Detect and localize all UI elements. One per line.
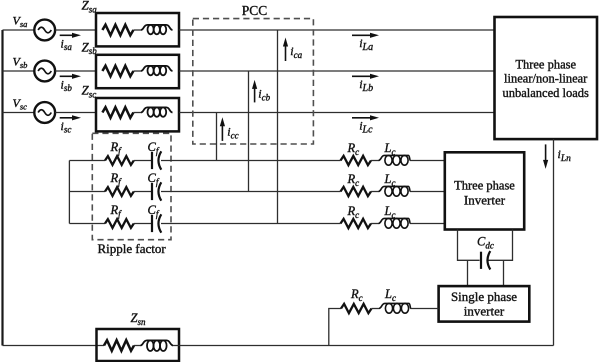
resistor Rc4: [341, 304, 372, 313]
inductor in Zsb: [141, 66, 173, 75]
wire: Lc1 to inverter: [411, 160, 445, 162]
wire: filter row c left: [69, 223, 105, 225]
capacitor Cf1: [152, 151, 161, 169]
arrow iLb: [352, 75, 372, 77]
resistor in Zsn: [104, 340, 134, 351]
wire: load neutral down: [553, 139, 555, 345]
wire: bus to source Vsb: [3, 70, 35, 72]
svg-text:Inverter: Inverter: [464, 193, 506, 208]
impedance Zsa box: [96, 13, 179, 46]
PCC dashed box: [193, 19, 314, 144]
resistor Rf2: [105, 187, 134, 196]
svg-text:Ripple factor: Ripple factor: [97, 241, 166, 256]
svg-text:PCC: PCC: [242, 3, 268, 18]
inductor Lc4: [379, 303, 411, 313]
arrow iLc: [352, 117, 372, 119]
wire: resistor to inductor in Zsb: [133, 70, 141, 72]
wire: filter row b left: [69, 191, 105, 193]
svg-text:linear/non-linear: linear/non-linear: [504, 72, 588, 86]
single phase inverter box: [439, 286, 530, 322]
impedance Zsc box: [96, 98, 179, 131]
inductor Lc2: [379, 186, 411, 196]
wire: Rc2 to Lc2: [371, 191, 379, 193]
wire: left source bus: [1, 30, 3, 346]
impedance Zsb box: [96, 55, 179, 88]
svg-text:Three phase: Three phase: [454, 179, 515, 193]
wire: Cf1 to Rc1: [161, 160, 341, 162]
three phase inverter box: [445, 152, 524, 229]
wire: bottom neutral left: [3, 345, 105, 347]
wire: Rf1 to Cf1: [134, 160, 152, 162]
svg-text:unbalanced loads: unbalanced loads: [502, 86, 589, 100]
wire: dc link right bracket: [488, 230, 512, 261]
wire: single phase branch corner: [329, 309, 341, 346]
wire: compensation tap ica: [277, 30, 279, 224]
resistor Rc3: [341, 219, 372, 228]
wire: Zsc to loads: [179, 112, 495, 114]
wire: Rc4 to Lc4: [372, 308, 380, 310]
impedance Zsn box: [97, 329, 180, 361]
wire: bus to source Vsa: [3, 29, 35, 31]
wire: dc to single phase right: [503, 260, 505, 286]
three phase loads box: [495, 17, 598, 139]
wire: dc link left bracket: [458, 230, 480, 261]
wire: Cf3 to Rc3: [161, 223, 341, 225]
arrow iLa: [352, 34, 372, 36]
wire: compensation tap icb: [248, 71, 250, 192]
wire: filter star bar: [68, 161, 70, 224]
wire: Lc4 to single phase inverter: [411, 308, 439, 310]
svg-text:Three phase: Three phase: [515, 57, 576, 71]
inductor in Zsa: [141, 25, 173, 34]
arrow icb: [254, 87, 256, 103]
resistor Rf1: [105, 156, 134, 165]
wire: resistor to inductor in Zsc: [133, 112, 141, 114]
resistor Rc1: [341, 156, 372, 165]
wire: compensation tap icc: [216, 113, 218, 161]
wire: Rc1 to Lc1: [371, 160, 379, 162]
ac source Vsc: [34, 102, 55, 123]
wire: Cf2 to Rc2: [161, 191, 341, 193]
ac source Vsb: [34, 61, 55, 82]
wire: Zsn resistor to inductor: [134, 345, 141, 347]
svg-text:Single phase: Single phase: [451, 289, 517, 304]
resistor Rf3: [105, 219, 134, 228]
arrow isa: [60, 34, 74, 36]
capacitor Cf3: [152, 214, 161, 232]
wire: filter row a left: [69, 160, 105, 162]
arrow icc: [221, 124, 223, 141]
inductor Lc1: [379, 155, 411, 165]
arrow ica: [285, 45, 287, 62]
wire: dc to single phase left: [467, 260, 469, 286]
wire: Rf2 to Cf2: [134, 191, 152, 193]
wire: bottom neutral right: [173, 345, 554, 347]
ripple factor dashed box: [92, 133, 171, 239]
resistor in Zsb: [102, 66, 133, 77]
inductor Lc3: [379, 218, 411, 228]
arrow isb: [60, 75, 74, 77]
wire: Zsa to loads: [179, 29, 495, 31]
wire: Lc2 to inverter: [411, 191, 445, 193]
wire: source to Zsa box: [55, 29, 102, 31]
resistor in Zsc: [102, 107, 133, 118]
wire: source to Zsb box: [55, 70, 102, 72]
resistor Rc2: [341, 187, 372, 196]
wire: Rc3 to Lc3: [371, 223, 379, 225]
wire: Lc3 to inverter: [411, 223, 445, 225]
capacitor Cdc: [481, 251, 490, 269]
wire: resistor to inductor in Zsa: [133, 29, 141, 31]
wire: Zsb to loads: [179, 70, 495, 72]
inductor in Zsc: [141, 107, 173, 116]
arrow iLn: [545, 144, 547, 162]
resistor in Zsa: [102, 25, 133, 36]
arrow isc: [60, 117, 74, 119]
wire: bus to source Vsc: [3, 112, 35, 114]
svg-text:inverter: inverter: [464, 304, 505, 319]
ac source Vsa: [34, 20, 55, 41]
wire: source to Zsc box: [55, 112, 102, 114]
inductor in Zsn: [141, 340, 174, 351]
capacitor Cf2: [152, 182, 161, 200]
wire: Rf3 to Cf3: [134, 223, 152, 225]
